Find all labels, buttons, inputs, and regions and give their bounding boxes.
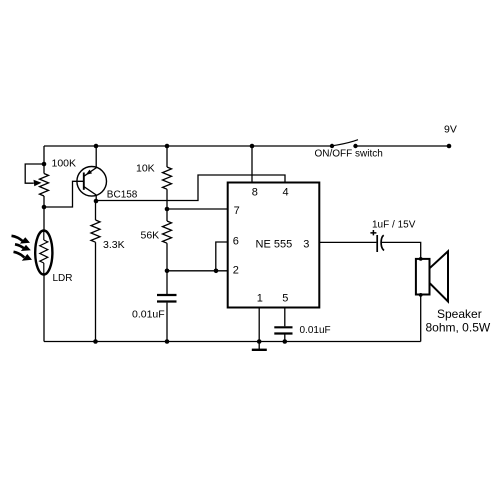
svg-text:8: 8 <box>252 186 258 198</box>
svg-text:1uF / 15V: 1uF / 15V <box>372 219 416 230</box>
svg-text:9V: 9V <box>444 124 457 136</box>
svg-text:10K: 10K <box>136 163 155 175</box>
svg-text:ON/OFF switch: ON/OFF switch <box>315 149 383 160</box>
svg-text:8ohm, 0.5W: 8ohm, 0.5W <box>426 320 491 334</box>
svg-text:0.01uF: 0.01uF <box>300 325 331 336</box>
svg-text:3: 3 <box>303 239 309 251</box>
svg-text:7: 7 <box>234 205 240 217</box>
svg-text:0.01uF: 0.01uF <box>132 309 165 321</box>
svg-text:3.3K: 3.3K <box>103 239 125 251</box>
svg-text:BC158: BC158 <box>107 189 138 200</box>
svg-text:Speaker: Speaker <box>437 307 482 321</box>
svg-text:1: 1 <box>257 293 263 305</box>
svg-text:6: 6 <box>233 235 239 247</box>
svg-text:100K: 100K <box>52 157 77 169</box>
svg-text:LDR: LDR <box>53 273 73 284</box>
svg-text:2: 2 <box>233 265 239 277</box>
svg-text:NE 555: NE 555 <box>256 238 293 250</box>
svg-text:56K: 56K <box>141 229 160 241</box>
svg-text:4: 4 <box>283 186 289 198</box>
svg-text:5: 5 <box>282 293 288 305</box>
